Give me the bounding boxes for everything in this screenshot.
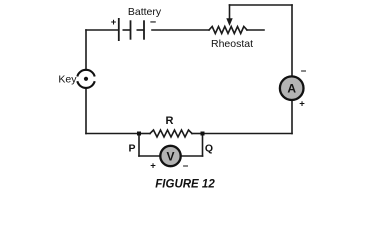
battery B1 tick wire 1 — [123, 29, 131, 31]
svg-text:A: A — [287, 82, 296, 96]
svg-text:R: R — [166, 115, 174, 127]
svg-text:–: – — [150, 16, 156, 28]
voltmeter branch: up to Q — [202, 134, 204, 157]
svg-text:–: – — [301, 66, 307, 77]
battery B1 plate 2 — [130, 20, 132, 39]
svg-text:+: + — [150, 161, 156, 172]
ammeter A1 body — [280, 76, 304, 100]
svg-text:–: – — [183, 161, 189, 172]
rheostat wiper arrowhead — [226, 18, 232, 26]
voltmeter branch: left horizontal — [139, 155, 160, 157]
wire right vertical lower (corner to ammeter) — [291, 100, 293, 134]
node P junction dot — [137, 132, 141, 136]
svg-text:V: V — [166, 149, 174, 163]
wire right vertical upper (ammeter to top corner) — [291, 5, 293, 76]
wire top-right (rheostat wiper to right corner) — [230, 4, 293, 6]
wire left vertical lower (key to bottom corner) — [85, 88, 87, 134]
svg-text:+: + — [299, 99, 305, 110]
battery B1 plate 3 (-) — [143, 20, 145, 39]
rheostat wiper shaft — [229, 5, 231, 20]
battery B1 plate long (+) — [118, 18, 120, 41]
wire top-left (battery + to left corner) — [86, 29, 118, 31]
wire bottom-left (corner to node P) — [86, 133, 139, 135]
wire battery - to rheostat — [152, 29, 209, 31]
voltmeter branch: right horizontal — [181, 155, 203, 157]
wire node P to resistor R — [139, 133, 150, 135]
svg-text:Key: Key — [58, 74, 77, 86]
svg-text:+: + — [111, 17, 117, 28]
svg-text:FIGURE 12: FIGURE 12 — [155, 179, 215, 191]
svg-text:Rheostat: Rheostat — [211, 38, 253, 50]
wire resistor R to node Q — [192, 133, 203, 135]
rheostat zigzag — [209, 27, 247, 34]
voltmeter V1 body — [160, 146, 180, 166]
wire left vertical upper (corner to key) — [85, 30, 87, 70]
voltmeter branch: P down — [138, 134, 140, 157]
resistor R zigzag — [150, 130, 192, 137]
battery B1 tick wire 2 — [137, 29, 145, 31]
node Q junction dot — [201, 132, 205, 136]
svg-text:Battery: Battery — [128, 6, 162, 18]
svg-text:Q: Q — [205, 143, 213, 155]
key contact dot — [84, 77, 88, 81]
key K1 circle arcs — [77, 70, 94, 88]
svg-text:P: P — [128, 143, 135, 155]
wire bottom-right (node Q to right corner) — [203, 133, 293, 135]
wire rheostat stub (dead end) — [247, 29, 264, 31]
